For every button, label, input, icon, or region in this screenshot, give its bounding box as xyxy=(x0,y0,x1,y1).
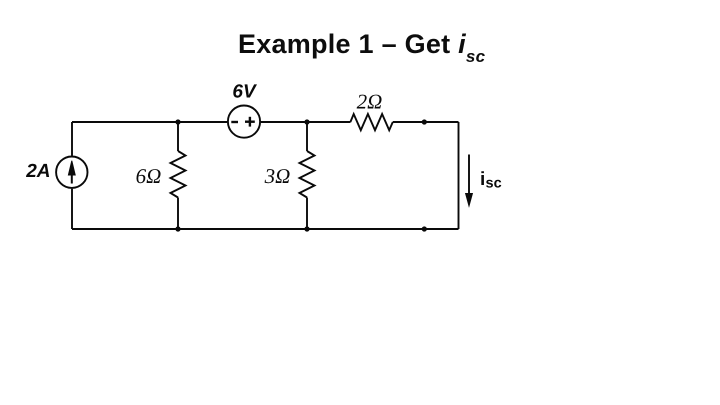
svg-text:6V: 6V xyxy=(232,82,257,103)
wire: 3-ohm branch top lead xyxy=(306,122,308,151)
title: Example 1 – Get i_sc xyxy=(238,31,485,58)
node dot: 3ohm top junction xyxy=(304,119,309,124)
wire: 6-ohm branch bottom lead xyxy=(177,198,179,230)
svg-text:sc: sc xyxy=(486,176,502,192)
wire: 3-ohm branch bottom lead xyxy=(306,198,308,230)
svg-text:2A: 2A xyxy=(25,161,50,182)
node dot: 3ohm bottom junction xyxy=(304,226,309,231)
wire: top middle segment xyxy=(261,121,351,123)
node dot: terminal a (top) xyxy=(422,119,427,124)
svg-text:2Ω: 2Ω xyxy=(357,90,383,114)
i_sc arrow (pointing down) xyxy=(466,155,473,207)
svg-text:6Ω: 6Ω xyxy=(136,164,162,188)
voltage source V1 circle xyxy=(228,106,260,138)
node dot: 6ohm bottom junction xyxy=(175,226,180,231)
wire: left vertical above current source xyxy=(71,122,73,156)
wire: left vertical below current source xyxy=(71,189,73,229)
current source I1 arrow (pointing up) xyxy=(68,161,75,184)
svg-text:3Ω: 3Ω xyxy=(264,164,291,188)
wire: 6-ohm branch top lead xyxy=(177,122,179,151)
resistor R 6ohm zigzag xyxy=(171,151,186,198)
svg-text:i: i xyxy=(480,169,485,190)
node dot: 6ohm top junction xyxy=(175,119,180,124)
resistor R 3ohm zigzag xyxy=(300,151,315,198)
voltage source V1 polarity marks (- +) xyxy=(231,117,255,127)
node dot: terminal b (bottom) xyxy=(422,226,427,231)
wire: right vertical (short-circuit branch) xyxy=(458,122,460,229)
wire: top left segment (node A rail) xyxy=(72,121,227,123)
wire: top right segment xyxy=(393,121,459,123)
wire: bottom rail xyxy=(72,228,459,230)
resistor R 2ohm zigzag (horizontal) xyxy=(350,114,392,130)
current source I1 circle xyxy=(56,157,87,188)
